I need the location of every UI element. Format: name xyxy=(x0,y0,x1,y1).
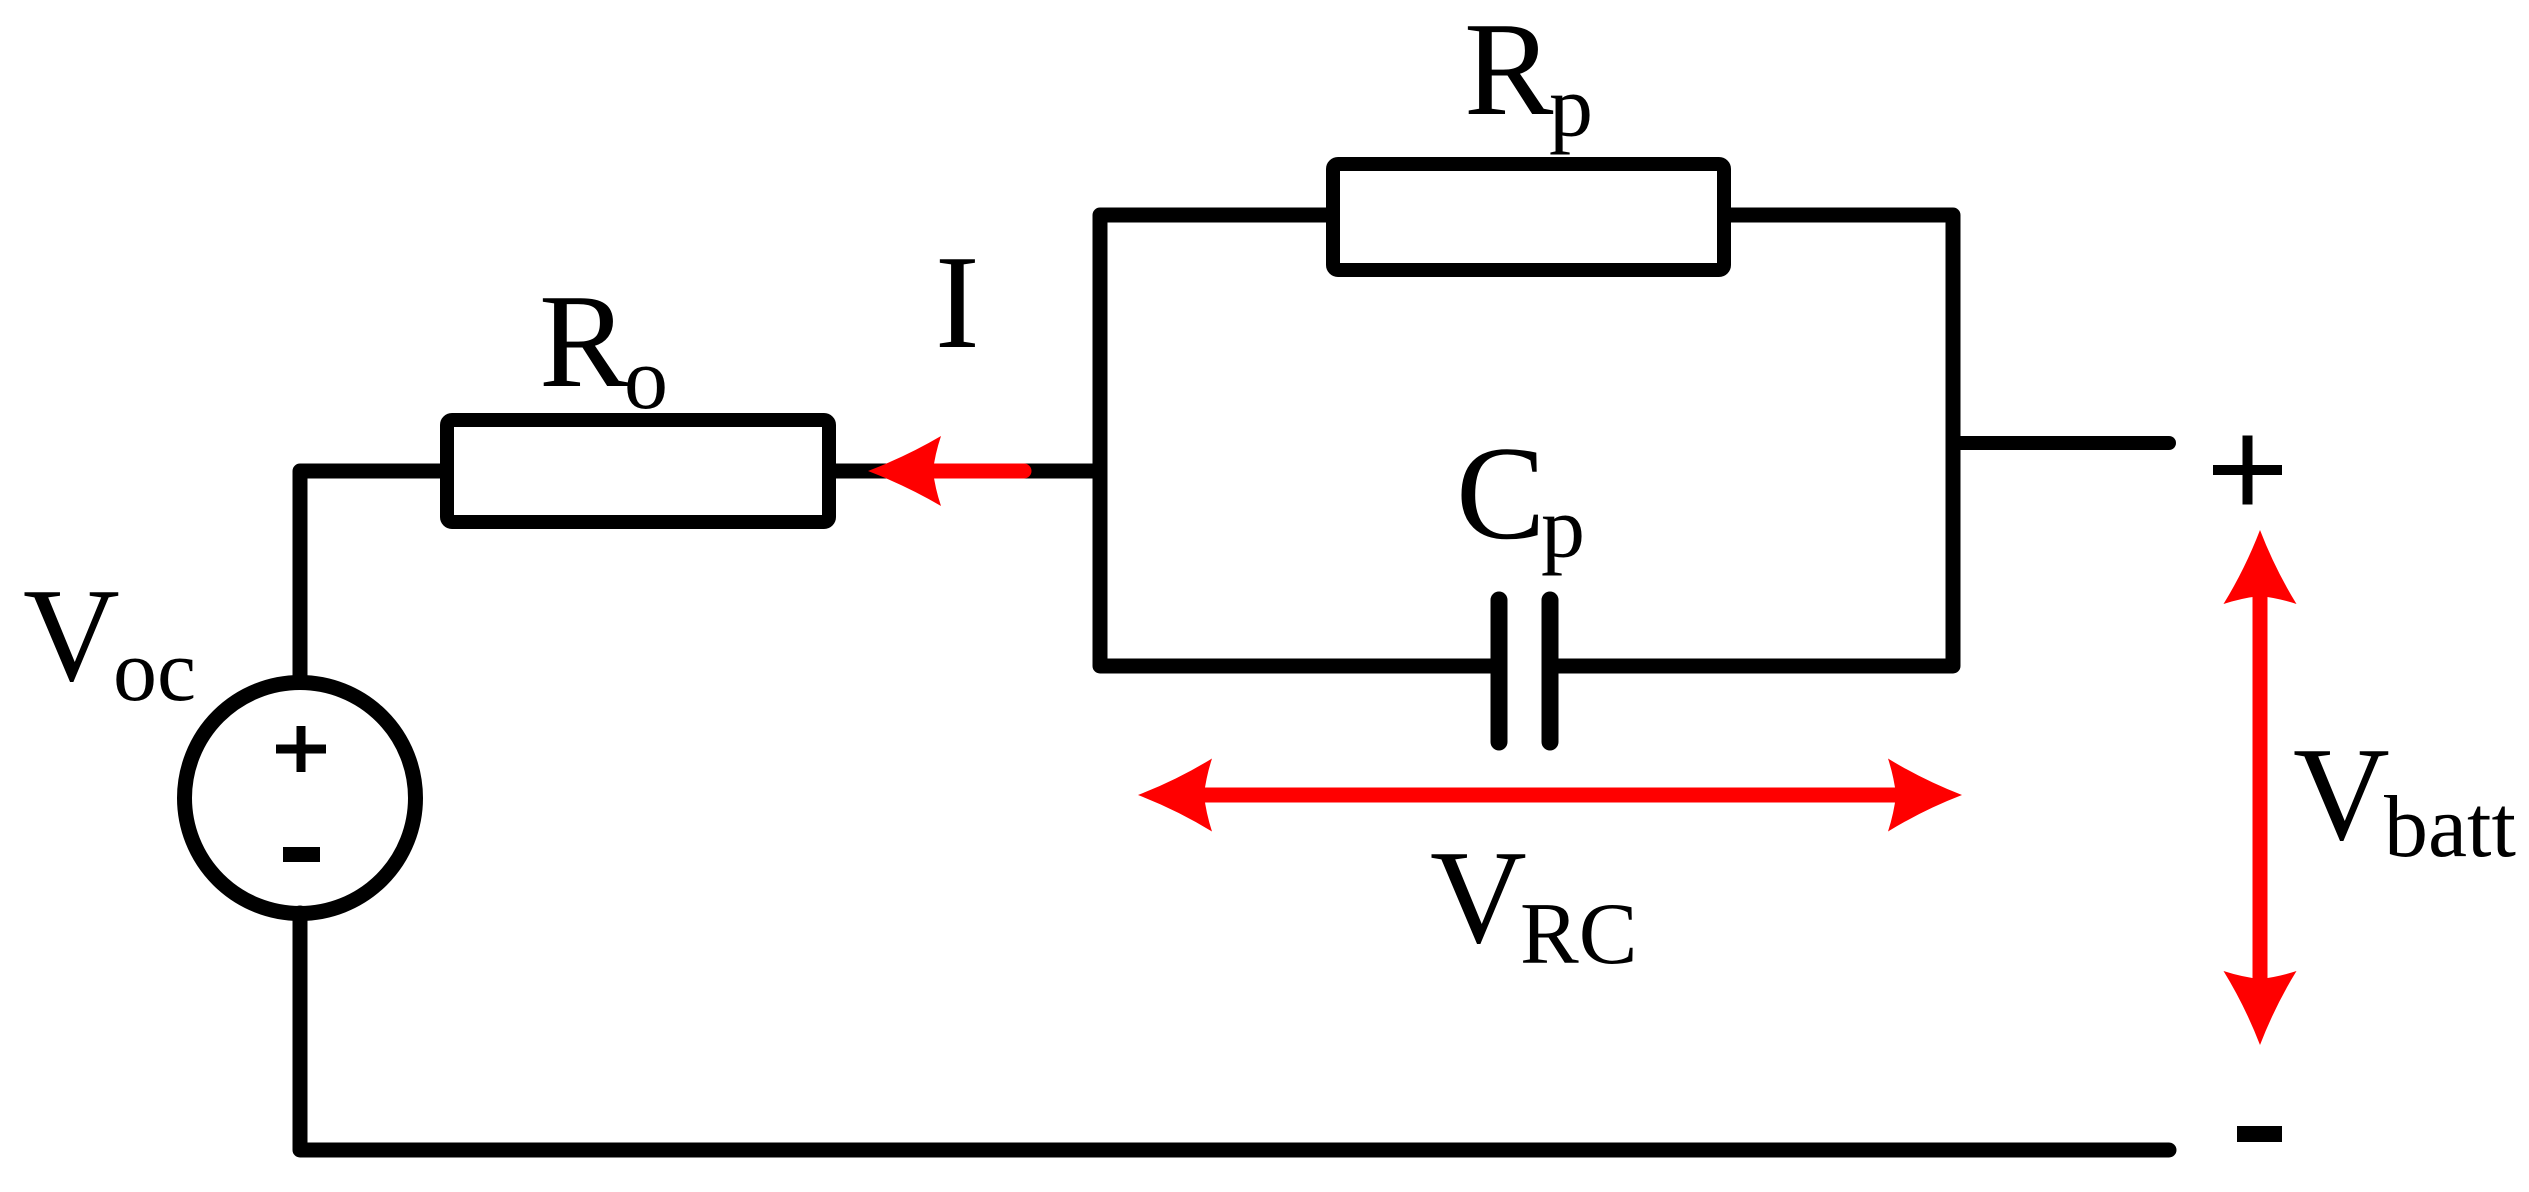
svg-text:V: V xyxy=(23,561,120,709)
capacitor Cp xyxy=(1491,600,1508,742)
resistor Ro xyxy=(447,420,829,522)
minus polarity mark inside Voc xyxy=(283,847,320,862)
wire from Voc positive terminal up and right to Ro xyxy=(300,471,440,683)
voltage source Voc xyxy=(185,683,416,914)
current arrow I (red) xyxy=(920,464,1024,479)
svg-text:V: V xyxy=(2293,720,2390,868)
wire RC block right branch (top-right, right vertical, bottom-right) xyxy=(1556,215,1953,666)
svg-text:RC: RC xyxy=(1520,886,1637,983)
svg-text:batt: batt xyxy=(2384,779,2516,876)
plus polarity mark inside Voc xyxy=(276,726,326,772)
svg-text:R: R xyxy=(1464,0,1554,143)
minus battery terminal xyxy=(2237,1126,2282,1142)
bottom return wire xyxy=(300,913,2169,1150)
resistor Rp xyxy=(1333,164,1724,270)
wire from Ro right terminal to RC-block node xyxy=(836,464,1100,479)
plus battery terminal xyxy=(2213,436,2282,505)
voltage arrow VRC (red, horizontal double-headed) xyxy=(1200,788,1900,803)
svg-text:p: p xyxy=(1541,480,1585,577)
svg-text:oc: oc xyxy=(113,623,196,720)
svg-text:R: R xyxy=(539,267,629,415)
svg-text:V: V xyxy=(1430,823,1527,971)
svg-text:C: C xyxy=(1456,419,1545,567)
wire RC block left branch (top-left, left vertical, bottom-left) xyxy=(1100,215,1493,666)
wire stub to positive battery terminal xyxy=(1953,436,2169,450)
svg-text:p: p xyxy=(1549,59,1593,156)
svg-text:I: I xyxy=(935,228,980,376)
svg-text:o: o xyxy=(624,331,668,428)
voltage arrow Vbatt (red, vertical double-headed) xyxy=(2253,592,2268,983)
